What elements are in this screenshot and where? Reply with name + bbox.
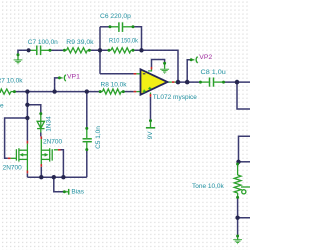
svg-text:Bias: Bias bbox=[71, 189, 84, 196]
svg-text:9V: 9V bbox=[147, 131, 154, 140]
svg-text:2N700: 2N700 bbox=[43, 139, 63, 146]
svg-text:R9 39,0k: R9 39,0k bbox=[66, 39, 94, 46]
svg-text:R8 10,0k: R8 10,0k bbox=[101, 81, 128, 88]
svg-text:VP2: VP2 bbox=[199, 54, 212, 61]
svg-text:VP1: VP1 bbox=[67, 73, 80, 80]
svg-text:C5 1,0n: C5 1,0n bbox=[95, 126, 102, 149]
svg-text:R10 150,0k: R10 150,0k bbox=[109, 38, 139, 45]
svg-text:2N700: 2N700 bbox=[3, 165, 23, 172]
svg-text:Tone 10,0k: Tone 10,0k bbox=[192, 183, 225, 190]
svg-text:C7 100,0n: C7 100,0n bbox=[28, 39, 58, 46]
svg-text:TL072 myspice: TL072 myspice bbox=[153, 94, 197, 101]
svg-text:C8 1,0u: C8 1,0u bbox=[201, 69, 227, 76]
svg-text:e: e bbox=[0, 102, 4, 109]
svg-text:1N34: 1N34 bbox=[46, 116, 53, 132]
svg-text:C6 220,0p: C6 220,0p bbox=[100, 13, 131, 20]
svg-text:R7 10,0k: R7 10,0k bbox=[0, 77, 23, 84]
